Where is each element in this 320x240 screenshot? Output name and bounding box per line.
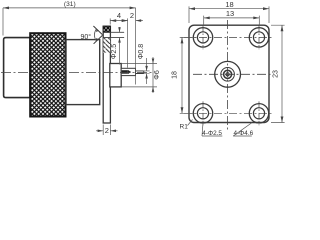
coupling nut knurl [30,33,65,116]
dim phi2.5 [111,32,124,37]
svg-text:(31): (31) [64,1,76,8]
dim 18 (left) [180,37,196,113]
flange outline [189,25,269,122]
svg-text:13: 13 [226,9,234,18]
hole bottom-left [193,101,212,125]
horizontal centerline [193,73,272,75]
svg-text:Φ2.5: Φ2.5 [111,44,118,59]
vertical centerline [227,20,229,132]
center interface circles [215,61,241,87]
mating cylinder [4,38,30,98]
hole top-left [193,26,212,50]
body [66,40,100,105]
hole bottom-right [249,101,268,125]
svg-text:23: 23 [272,70,279,78]
dim 23 (right) [271,25,285,122]
plate top section hatch (dense) [103,26,110,32]
svg-text:18: 18 [225,0,233,9]
dim 4 (top) [109,18,111,24]
svg-text:Φ0.8: Φ0.8 [138,44,145,59]
centerline [1,72,152,74]
mounting hole bore lines through plate [103,32,124,37]
top hole row centerline [184,36,272,38]
solder slot dark band [122,70,128,74]
dim phi0.8 [146,58,148,84]
dim 2 (top) [135,8,137,85]
countersink cone 90deg [93,26,102,44]
hole top-right [249,26,268,50]
center pin tail [136,71,144,74]
pin extension lines [144,71,150,74]
svg-text:Φ6: Φ6 [154,70,161,80]
dim 2 (plate thickness, bottom) [103,125,110,136]
svg-text:90°: 90° [81,33,92,41]
dim 13 [204,16,260,26]
svg-text:R1: R1 [180,123,189,130]
svg-text:2: 2 [105,126,109,135]
bottom hole row centerline [184,112,272,114]
dim phi6 [121,64,157,87]
rear stub [121,68,135,75]
plate section hatch below hole [103,38,110,53]
rear boss [110,64,121,87]
slot end taper [128,70,131,74]
flange plate [103,26,110,123]
90deg arc with arrows [94,29,96,41]
svg-text:4: 4 [117,11,121,20]
dim 18 (top) [189,6,269,23]
svg-text:2: 2 [130,11,134,20]
dim (31) [2,8,4,36]
svg-text:18: 18 [172,71,179,79]
